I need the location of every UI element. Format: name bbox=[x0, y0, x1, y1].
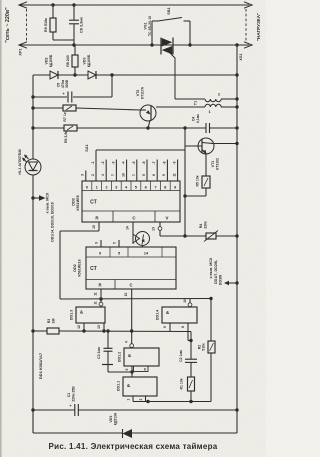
resistor R3 bbox=[47, 328, 59, 334]
IC DD2 К561ИЕ16 box bbox=[86, 247, 176, 289]
IC DD3 output leads bbox=[85, 171, 87, 182]
node R1 bottom bbox=[189, 400, 192, 403]
resistor R5 bottom wire bbox=[205, 188, 207, 196]
svg-text:1: 1 bbox=[127, 398, 131, 400]
node R7 row left bbox=[31, 106, 34, 109]
svg-text:VD3: VD3 bbox=[83, 58, 87, 65]
node R9 top bbox=[51, 3, 54, 6]
IC DD2 pin 10 lead bbox=[131, 289, 133, 331]
svg-text:5: 5 bbox=[142, 174, 146, 176]
svg-text:10: 10 bbox=[121, 173, 125, 177]
gate DD1.4 input pin 9 bbox=[169, 323, 171, 332]
transistor VT2 emitter arrow bbox=[141, 109, 147, 111]
svg-text:R5 10к: R5 10к bbox=[196, 175, 200, 186]
node supply tap bbox=[31, 196, 34, 199]
node right rail top bbox=[235, 43, 238, 46]
svg-text:1: 1 bbox=[208, 110, 210, 114]
transformer T1 winding 2 wire bbox=[175, 98, 205, 100]
svg-text:-7: -7 bbox=[152, 161, 156, 164]
svg-text:5: 5 bbox=[118, 252, 120, 256]
svg-text:2: 2 bbox=[218, 93, 220, 97]
capacitor C2 bbox=[185, 358, 197, 360]
node C5 row left bbox=[31, 95, 34, 98]
connector XS1 dashed line bbox=[245, 9, 247, 41]
transistor VT1 collector bbox=[202, 143, 213, 144]
resistor R7 bbox=[63, 105, 76, 111]
svg-text:4: 4 bbox=[125, 341, 129, 343]
connector XP1 pin top arrow bbox=[19, 2, 27, 8]
svg-text:R1 10к: R1 10к bbox=[180, 378, 184, 389]
node R8 top junction bbox=[72, 43, 75, 46]
switch SB1 bbox=[152, 20, 158, 22]
node C8 top bbox=[72, 3, 75, 6]
svg-text:"НАГРУЗКА": "НАГРУЗКА" bbox=[256, 13, 261, 41]
svg-text:10: 10 bbox=[183, 299, 187, 303]
svg-text:КД513А: КД513А bbox=[114, 412, 118, 425]
svg-text:R6 3,9к: R6 3,9к bbox=[64, 131, 68, 143]
svg-text:-5: -5 bbox=[132, 161, 136, 164]
wire rail left vertical bbox=[32, 75, 34, 159]
wire R3 row bbox=[33, 330, 47, 332]
diode VD3 bbox=[88, 71, 96, 79]
svg-text:2: 2 bbox=[139, 398, 143, 400]
svg-text:-4: -4 bbox=[122, 161, 126, 164]
ground tap arrow to IC common pins bbox=[228, 282, 237, 284]
svg-text:С8 3,3мк: С8 3,3мк bbox=[80, 17, 84, 33]
svg-text:9: 9 bbox=[162, 174, 166, 176]
IC DD3 bottom cell dividers bbox=[112, 211, 114, 222]
svg-text:V: V bbox=[166, 216, 169, 221]
IC DD2 output stubs bbox=[100, 240, 102, 247]
node R8 bottom bbox=[73, 73, 76, 76]
svg-text:300В: 300В bbox=[65, 79, 69, 88]
wire bottom rail bbox=[32, 410, 34, 433]
resistor R2 bbox=[208, 341, 215, 353]
svg-text:R7 1к: R7 1к bbox=[63, 112, 67, 121]
node C3 top bbox=[106, 329, 109, 332]
svg-text:DD3: DD3 bbox=[72, 198, 76, 206]
IC DD3 pin 15 lead bbox=[98, 222, 100, 231]
svg-text:7: 7 bbox=[111, 174, 115, 176]
resistor R1 bbox=[188, 377, 195, 391]
svg-text:DD1/14, DD2/16, DD3/16: DD1/14, DD2/16, DD3/16 bbox=[51, 202, 55, 242]
svg-text:С2 1мк: С2 1мк bbox=[179, 350, 183, 362]
connector XS1 pin top arrow bbox=[244, 2, 252, 8]
svg-text:-8: -8 bbox=[162, 161, 166, 164]
IC DD3 pin 13 lead bbox=[158, 227, 162, 231]
gate DD1.3 output lead pin 11 bbox=[100, 299, 102, 302]
IC DD2 bottom cell divider bbox=[114, 280, 116, 290]
svg-text:CT: CT bbox=[90, 266, 97, 272]
wire top mains rail bbox=[20, 4, 249, 6]
svg-text:С4: С4 bbox=[192, 117, 196, 122]
resistor R9 leads bbox=[52, 5, 54, 18]
svg-text:R9 510к: R9 510к bbox=[44, 18, 48, 32]
node T1 w1 rail bbox=[235, 105, 238, 108]
svg-text:DD3/8: DD3/8 bbox=[219, 275, 223, 285]
gate DD1.3 bbox=[76, 307, 105, 323]
wire C1 row bbox=[33, 409, 75, 411]
svg-text:-3: -3 bbox=[111, 161, 115, 164]
svg-text:DD2: DD2 bbox=[73, 264, 77, 272]
node right rail y75 bbox=[235, 73, 238, 76]
node VT1 collector rail bbox=[235, 142, 238, 145]
wire C2 R1 vertical bbox=[190, 332, 192, 360]
svg-text:HL1 АЛ307БМ: HL1 АЛ307БМ bbox=[18, 149, 22, 174]
triac VS1 gate wire bbox=[170, 53, 175, 99]
svg-text:C: C bbox=[129, 283, 132, 288]
svg-text:VD1: VD1 bbox=[109, 416, 113, 423]
gate DD1.2 pin 4 lead bbox=[131, 331, 133, 344]
svg-text:1: 1 bbox=[132, 174, 136, 176]
svg-text:С1: С1 bbox=[67, 393, 71, 398]
node R4 left junction bbox=[183, 234, 186, 237]
resistor R4 tuning bbox=[206, 233, 216, 239]
svg-text:Т1: Т1 bbox=[194, 101, 198, 105]
capacitor C3 leads bbox=[107, 331, 109, 348]
svg-text:DD1/7, DD2/8,: DD1/7, DD2/8, bbox=[214, 260, 218, 284]
gate DD1.4 bbox=[162, 307, 197, 323]
resistor R8 bbox=[72, 55, 78, 67]
node C5 top junction bbox=[110, 73, 113, 76]
wire right rail bbox=[236, 45, 238, 410]
transistor VT1 КТ3102 bbox=[198, 138, 214, 154]
node R3 row left bbox=[31, 329, 34, 332]
svg-text:R8 240: R8 240 bbox=[66, 55, 70, 67]
svg-text:к выв. МСХ: к выв. МСХ bbox=[46, 192, 50, 213]
wire SB1 right stub bbox=[189, 21, 191, 45]
capacitor C4 bbox=[205, 123, 207, 133]
svg-text:ТС 2Б-20-10: ТС 2Б-20-10 bbox=[148, 16, 152, 36]
node R6 row left bbox=[31, 126, 34, 129]
node R4 rail bbox=[235, 234, 238, 237]
svg-text:DD1 К561ЛА7: DD1 К561ЛА7 bbox=[38, 352, 43, 379]
LED HL1 bbox=[25, 159, 41, 175]
gate DD1.1 pin 1 lead bbox=[132, 396, 134, 402]
svg-text:510к: 510к bbox=[202, 343, 206, 351]
svg-text:13: 13 bbox=[152, 227, 156, 231]
IC DD3 pin 14 lead bbox=[132, 222, 134, 244]
capacitor C1 polarized bbox=[74, 404, 76, 416]
resistor R2 bottom wire bbox=[210, 353, 212, 402]
svg-text:ХS1: ХS1 bbox=[239, 53, 243, 60]
svg-text:DD1.2: DD1.2 bbox=[118, 352, 122, 362]
node DD1.1 output bbox=[146, 400, 149, 403]
connector XS1 pin bottom arrow bbox=[244, 42, 252, 48]
svg-text:11: 11 bbox=[172, 173, 176, 177]
supply tap arrow to IC power pins bbox=[33, 197, 40, 199]
gate DD1.1 top lead bbox=[131, 372, 133, 377]
svg-text:11: 11 bbox=[94, 292, 98, 296]
resistor R6 bbox=[64, 125, 77, 131]
svg-text:5: 5 bbox=[125, 368, 129, 370]
IC DD2 pin 11 lead bbox=[100, 289, 102, 299]
node DD1.2 pin4 junction bbox=[130, 329, 133, 332]
svg-text:3: 3 bbox=[81, 174, 85, 176]
wire R6 row bbox=[33, 127, 64, 129]
svg-text:DD1.4: DD1.4 bbox=[156, 310, 160, 320]
gate DD1.4 output pin 10 bbox=[188, 303, 192, 307]
svg-text:VD2: VD2 bbox=[45, 58, 49, 65]
IC DD2 top cell dividers bbox=[109, 247, 111, 257]
svg-text:5: 5 bbox=[113, 242, 117, 244]
wire R7 row bbox=[33, 107, 63, 109]
node SB1 left bbox=[150, 43, 153, 46]
wire diode row to right rail bbox=[96, 74, 237, 76]
LED HL1 emission arrows bbox=[25, 155, 29, 159]
transistor VT2 КТ117А bbox=[140, 105, 156, 121]
svg-text:SA1: SA1 bbox=[85, 144, 89, 151]
resistor R5 bbox=[202, 176, 210, 188]
svg-text:ХР1: ХР1 bbox=[19, 48, 23, 55]
wire C5 row bbox=[33, 96, 67, 98]
svg-text:-2: -2 bbox=[101, 161, 105, 164]
switch SA1 common bus bbox=[96, 149, 185, 151]
svg-text:DD1.1: DD1.1 bbox=[117, 381, 121, 391]
svg-text:КД105Б: КД105Б bbox=[87, 54, 91, 67]
diode VD2 bbox=[50, 71, 58, 79]
wire reset row bbox=[60, 298, 211, 301]
caption bbox=[0, 442, 266, 451]
svg-text:SB1: SB1 bbox=[167, 7, 171, 14]
svg-text:К561ИЕ8: К561ИЕ8 bbox=[76, 195, 80, 210]
svg-text:6: 6 bbox=[144, 368, 146, 372]
svg-text:DD1.3: DD1.3 bbox=[70, 310, 74, 320]
gate DD1.2 pin 5 lead bbox=[131, 366, 133, 372]
svg-text:6: 6 bbox=[152, 174, 156, 176]
transistor VT2 base1 lead bbox=[148, 121, 150, 129]
IC DD3 К561ИЕ8 box bbox=[82, 181, 180, 222]
svg-text:15: 15 bbox=[92, 225, 96, 229]
svg-text:9: 9 bbox=[99, 252, 101, 256]
node pin8 junction bbox=[189, 339, 192, 342]
svg-text:К561ИЕ16: К561ИЕ16 bbox=[78, 259, 82, 276]
svg-text:С3 1мк: С3 1мк bbox=[97, 347, 101, 359]
transformer T1 winding 1 wire bbox=[156, 106, 205, 108]
diode VD1 bbox=[123, 429, 133, 438]
svg-text:-1: -1 bbox=[91, 161, 95, 164]
transformer T1 winding 2 bbox=[205, 99, 221, 102]
transistor VT1 base wire bbox=[185, 145, 202, 147]
gate DD1.4 input pin 8 bbox=[187, 323, 189, 341]
transistor VT3 cell bbox=[136, 232, 150, 246]
resistor R9 bbox=[50, 18, 56, 32]
capacitor C3 bbox=[104, 347, 113, 349]
resistor R2 top wire bbox=[210, 299, 212, 342]
svg-text:VS1: VS1 bbox=[144, 22, 148, 29]
node timing junction bbox=[183, 126, 186, 129]
gate DD1.1 bbox=[123, 377, 157, 396]
transistor VT3 bottom lead bbox=[142, 246, 144, 248]
svg-text:10: 10 bbox=[124, 293, 128, 297]
node VT2 base1 bbox=[146, 126, 149, 129]
wire left rail top corner bbox=[33, 74, 50, 76]
node C1 row left bbox=[31, 408, 34, 411]
resistor R8 leads bbox=[74, 45, 76, 55]
node C4 rail bbox=[235, 126, 238, 129]
node DD1.3 pin12 bbox=[82, 329, 85, 332]
node R2 top bbox=[209, 297, 212, 300]
svg-text:КД105Б: КД105Б bbox=[49, 54, 53, 67]
resistor R1 bottom lead bbox=[190, 391, 192, 402]
svg-text:КТ117А: КТ117А bbox=[141, 86, 145, 99]
gate DD1.3 input lead pin 12 bbox=[83, 323, 85, 331]
gate DD1.2 bbox=[124, 348, 159, 366]
svg-text:1М: 1М bbox=[52, 319, 56, 324]
svg-text:CT: CT bbox=[90, 200, 97, 206]
node C1 row right bbox=[235, 408, 238, 411]
svg-text:С5: С5 bbox=[57, 83, 61, 88]
node DD1 gates junction bbox=[130, 370, 133, 373]
capacitor C8 leads bbox=[73, 5, 75, 20]
svg-text:13: 13 bbox=[97, 325, 101, 329]
svg-text:"сеть ~ 220в": "сеть ~ 220в" bbox=[5, 7, 11, 43]
svg-text:2: 2 bbox=[91, 174, 95, 176]
gate DD1.2 pin 6 loop bbox=[134, 366, 149, 372]
capacitor C8 bbox=[69, 19, 79, 21]
svg-text:КТ3102: КТ3102 bbox=[216, 158, 220, 170]
svg-text:9: 9 bbox=[95, 242, 99, 244]
svg-text:R3: R3 bbox=[47, 319, 51, 324]
svg-text:VT1: VT1 bbox=[211, 161, 215, 168]
transistor VT1 emitter bbox=[202, 150, 206, 154]
svg-text:12: 12 bbox=[77, 325, 81, 329]
svg-text:220к: 220к bbox=[204, 221, 208, 229]
svg-text:0,1мк: 0,1мк bbox=[196, 114, 200, 123]
node DD1.3 pin13 bbox=[102, 329, 105, 332]
node T1 w2 rail bbox=[235, 97, 238, 100]
wire R4 row bbox=[185, 235, 206, 237]
svg-text:9: 9 bbox=[163, 326, 167, 328]
svg-text:14: 14 bbox=[126, 226, 130, 230]
triac VS1 bbox=[160, 38, 162, 55]
IC DD3 output cell dividers bbox=[91, 181, 93, 191]
wire timing vertical bbox=[184, 128, 186, 236]
svg-text:8: 8 bbox=[181, 326, 185, 328]
node SB1 right bbox=[188, 43, 191, 46]
svg-text:-6: -6 bbox=[142, 161, 146, 164]
svg-text:VT2: VT2 bbox=[136, 90, 140, 97]
svg-text:-9: -9 bbox=[173, 161, 177, 164]
gate DD1.3 input lead pin 13 bbox=[103, 323, 105, 331]
connector XP1 dashed line bbox=[26, 9, 28, 41]
svg-text:R4: R4 bbox=[199, 224, 203, 229]
wire DD1.1 output row bbox=[133, 401, 211, 403]
svg-text:220м 25В: 220м 25В bbox=[72, 386, 76, 402]
svg-text:11: 11 bbox=[94, 301, 98, 305]
node DD1.3 output bbox=[99, 297, 102, 300]
transformer T1 winding 1 bbox=[205, 104, 221, 107]
gate DD1.1 pin 3 lead bbox=[145, 396, 147, 402]
svg-text:4: 4 bbox=[101, 174, 105, 176]
wire SB1 left stub bbox=[151, 21, 153, 45]
connector XP1 pin bottom arrow bbox=[19, 42, 27, 48]
svg-text:к выв. МСХ: к выв. МСХ bbox=[209, 257, 213, 278]
wire lower mains bbox=[20, 44, 249, 46]
node R5 junction bbox=[183, 194, 186, 197]
wire DD3 reset to DD1.3 bbox=[60, 230, 99, 232]
svg-text:R: R bbox=[98, 283, 101, 288]
capacitor C5 polarized bbox=[67, 92, 69, 103]
wire VD2-VD3 segment bbox=[58, 74, 88, 76]
